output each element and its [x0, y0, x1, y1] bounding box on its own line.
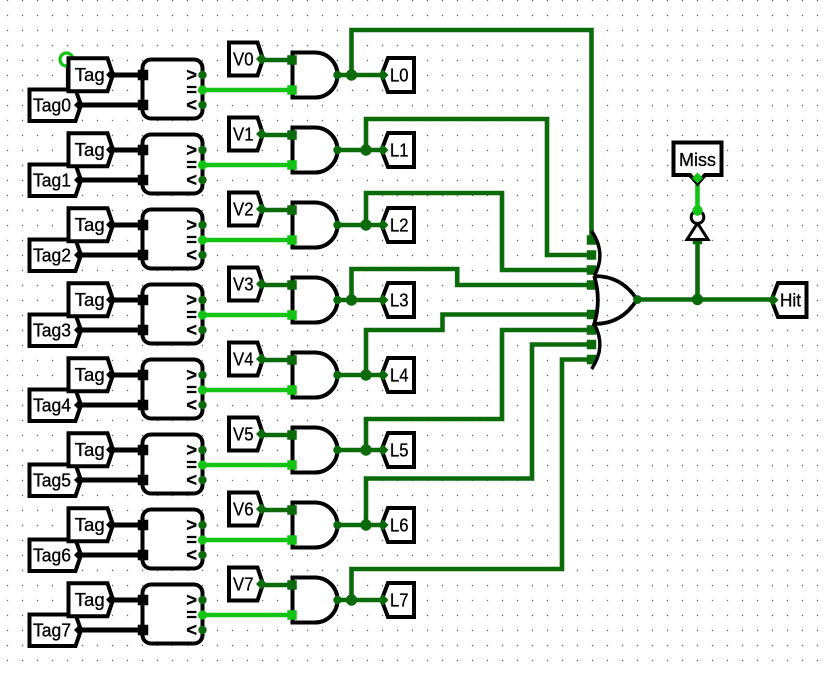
wire end square at AND gate A7 input 2 (high): [287, 610, 297, 620]
wire Tag to comparator CMP2 input A: [111, 223, 143, 228]
input label V5: [229, 418, 267, 451]
output label L5: [378, 433, 415, 467]
wire AND gate A6 output to label L6: [338, 523, 381, 528]
wire comparator CMP5 = output to AND gate A5 (high): [203, 463, 293, 468]
svg-text:V5: V5: [233, 424, 254, 444]
output label Miss: [674, 143, 722, 184]
AND gate A1: [293, 128, 342, 173]
input label Tag (row 5): [69, 433, 118, 466]
wire Tag0 to comparator CMP0 input B: [79, 103, 143, 108]
input label Tag2: [30, 240, 86, 272]
wire V6 to AND gate A6: [261, 508, 293, 513]
input label Tag (row 3): [69, 283, 118, 316]
wire AND gate A0 output to label L0: [338, 73, 381, 78]
output label L3: [378, 283, 415, 317]
wire AND gate A2 output branch to OR gate input 3: [366, 193, 592, 270]
output label L2: [378, 208, 415, 242]
AND gate A6: [293, 503, 342, 548]
svg-text:Tag: Tag: [75, 365, 105, 385]
input label Tag (row 6): [69, 508, 118, 541]
svg-text:L5: L5: [390, 440, 409, 460]
wire Tag to comparator CMP0 input A: [111, 73, 143, 78]
wire Tag to comparator CMP5 input A: [111, 448, 143, 453]
comparator CMP2: [143, 210, 208, 269]
wire end square at OR gate input 8: [587, 355, 597, 365]
svg-text:Tag: Tag: [75, 590, 105, 610]
AND gate A4: [293, 353, 342, 398]
input label Tag3: [30, 315, 86, 347]
wire Tag7 to comparator CMP7 input B: [79, 628, 143, 633]
wire V2 to AND gate A2: [261, 208, 293, 213]
wire comparator CMP7 = output to AND gate A7 (high): [203, 613, 293, 618]
svg-text:<: <: [186, 619, 197, 640]
input label V6: [229, 493, 267, 526]
AND gate A2: [293, 203, 342, 248]
wire Tag2 to comparator CMP2 input B: [79, 253, 143, 258]
wire end square at OR gate input 2: [587, 250, 597, 260]
wire AND gate A3 output branch to OR gate input 4: [352, 269, 592, 300]
svg-text:Hit: Hit: [780, 290, 801, 310]
wire end square at AND gate A2 input 1: [287, 205, 297, 215]
wire AND gate A3 output to label L3: [338, 298, 381, 303]
NOT gate U2 (inverter, pointing up): [687, 211, 708, 240]
wire AND gate A7 output to label L7: [338, 598, 381, 603]
svg-text:Tag2: Tag2: [33, 246, 71, 266]
wire Tag to comparator CMP6 input A: [111, 523, 143, 528]
wire V0 to AND gate A0: [261, 58, 293, 63]
wire Tag to comparator CMP4 input A: [111, 373, 143, 378]
input label V4: [229, 343, 267, 376]
wire end square at AND gate A1 input 2 (high): [287, 160, 297, 170]
output label Hit: [768, 283, 807, 317]
wire comparator CMP3 = output to AND gate A3 (high): [203, 313, 293, 318]
wire Tag to comparator CMP7 input A: [111, 598, 143, 603]
wire OR gate output to node: [638, 297, 698, 302]
input label V2: [229, 193, 267, 226]
wire end square at comparator CMP3 input B: [138, 325, 149, 336]
svg-text:Miss: Miss: [679, 150, 716, 170]
wire end square at comparator CMP5 input B: [138, 475, 149, 486]
wire V3 to AND gate A3: [261, 283, 293, 288]
svg-text:L6: L6: [390, 515, 409, 535]
input label Tag5: [30, 465, 86, 497]
svg-text:<: <: [186, 244, 197, 265]
output label L4: [378, 358, 415, 392]
AND gate A7: [293, 578, 342, 623]
input label Tag6: [30, 540, 86, 572]
svg-text:<: <: [186, 544, 197, 565]
wire end square at AND gate A3 input 1: [287, 280, 297, 290]
wire end square at comparator CMP3 input A: [138, 295, 149, 306]
wire end square at comparator CMP4 input A: [138, 370, 149, 381]
wire end square at comparator CMP0 input A: [138, 70, 149, 81]
junction node at AND gate A2 output: [360, 219, 371, 230]
wire AND gate A1 output to label L1: [338, 148, 381, 153]
svg-text:L1: L1: [390, 140, 409, 160]
svg-text:V7: V7: [233, 574, 254, 594]
wire comparator CMP6 = output to AND gate A6 (high): [203, 538, 293, 543]
wire Tag1 to comparator CMP1 input B: [79, 178, 143, 183]
wire AND gate A4 output branch to OR gate input 5: [366, 315, 592, 376]
svg-text:<: <: [186, 94, 197, 115]
comparator CMP0: [143, 60, 208, 119]
AND gate A3: [293, 278, 342, 323]
input label Tag1: [30, 165, 86, 197]
svg-text:<: <: [186, 169, 197, 190]
wire end square at AND gate A6 input 1: [287, 505, 297, 515]
wire end square at AND gate A4 input 1: [287, 355, 297, 365]
input label Tag (row 4): [69, 358, 118, 391]
wire end square at comparator CMP4 input B: [138, 400, 149, 411]
comparator CMP4: [143, 360, 208, 419]
output label L6: [378, 508, 415, 542]
wire end square at AND gate A0 input 2 (high): [287, 85, 297, 95]
wire Tag6 to comparator CMP6 input B: [79, 553, 143, 558]
wire AND gate A2 output to label L2: [338, 223, 381, 228]
svg-text:Tag: Tag: [75, 515, 105, 535]
svg-text:L4: L4: [390, 365, 409, 385]
input label Tag0: [30, 90, 86, 122]
AND gate A0: [293, 53, 342, 98]
wire V7 to AND gate A7: [261, 583, 293, 588]
svg-text:Tag: Tag: [75, 65, 105, 85]
wire comparator CMP2 = output to AND gate A2 (high): [203, 238, 293, 243]
svg-text:V3: V3: [233, 274, 254, 294]
junction node at AND gate A5 output: [360, 444, 371, 455]
svg-text:V4: V4: [233, 349, 254, 369]
svg-text:Tag3: Tag3: [33, 321, 71, 341]
wire end square at AND gate A2 input 2 (high): [287, 235, 297, 245]
svg-text:<: <: [186, 319, 197, 340]
svg-text:L3: L3: [390, 290, 409, 310]
junction node at AND gate A3 output: [346, 294, 357, 305]
svg-text:V1: V1: [233, 124, 254, 144]
wire end square at comparator CMP2 input B: [138, 250, 149, 261]
wire end square at OR gate input 6: [587, 325, 597, 335]
wire Tag4 to comparator CMP4 input B: [79, 403, 143, 408]
comparator CMP6: [143, 510, 208, 569]
wire end square at AND gate A5 input 2 (high): [287, 460, 297, 470]
wire end square at AND gate A4 input 2 (high): [287, 385, 297, 395]
wire comparator CMP4 = output to AND gate A4 (high): [203, 388, 293, 393]
svg-text:Tag: Tag: [75, 215, 105, 235]
wire end square at AND gate A6 input 2 (high): [287, 535, 297, 545]
input label Tag (row 0): [69, 58, 118, 91]
node at NOT gate output (high): [692, 205, 702, 215]
wire end square at OR gate input 7: [587, 340, 597, 350]
comparator CMP5: [143, 435, 208, 494]
wire end square at comparator CMP1 input A: [138, 145, 149, 156]
wire end square at OR gate input 4: [587, 280, 597, 290]
wire Tag to comparator CMP1 input A: [111, 148, 143, 153]
OR gate U1 (8-input): [592, 231, 642, 369]
wire AND gate A4 output to label L4: [338, 373, 381, 378]
wire end square at comparator CMP2 input A: [138, 220, 149, 231]
svg-text:Tag: Tag: [75, 140, 105, 160]
wire node to Hit label: [698, 297, 772, 302]
wire AND gate A0 output branch to OR gate input 1: [352, 30, 592, 240]
svg-text:Tag7: Tag7: [33, 621, 71, 641]
wire Tag to comparator CMP3 input A: [111, 298, 143, 303]
wire end square at comparator CMP6 input A: [138, 520, 149, 531]
svg-text:L0: L0: [390, 65, 409, 85]
wire AND gate A5 output branch to OR gate input 6: [366, 330, 592, 450]
output label L0: [378, 58, 415, 92]
input label Tag (row 2): [69, 208, 118, 241]
svg-text:Tag: Tag: [75, 290, 105, 310]
svg-text:L2: L2: [390, 215, 409, 235]
open wire end marker (circle): [60, 53, 73, 66]
svg-text:Tag0: Tag0: [33, 96, 71, 116]
wire end square at comparator CMP1 input B: [138, 175, 149, 186]
svg-text:<: <: [186, 469, 197, 490]
svg-text:Tag1: Tag1: [33, 171, 71, 191]
wire end square at AND gate A1 input 1: [287, 130, 297, 140]
svg-text:V2: V2: [233, 199, 254, 219]
wire end square at OR gate input 3: [587, 265, 597, 275]
wire comparator CMP0 = output to AND gate A0 (high): [203, 88, 293, 93]
wire end square at OR gate input 5: [587, 310, 597, 320]
wire AND gate A1 output branch to OR gate input 2: [366, 119, 592, 255]
wire V5 to AND gate A5: [261, 433, 293, 438]
junction node at AND gate A0 output: [346, 69, 357, 80]
junction node at AND gate A6 output: [360, 519, 371, 530]
AND gate A5: [293, 428, 342, 473]
wire end square at OR gate input 1: [587, 235, 597, 245]
wire end square at comparator CMP5 input A: [138, 445, 149, 456]
input label Tag7: [30, 615, 86, 647]
wire end square at NOT gate input: [693, 235, 703, 245]
wire AND gate A6 output branch to OR gate input 7: [366, 345, 592, 526]
wire end square at AND gate A0 input 1: [287, 55, 297, 65]
wire node to NOT gate input: [695, 240, 700, 300]
wire V1 to AND gate A1: [261, 133, 293, 138]
svg-text:Tag: Tag: [75, 440, 105, 460]
wire comparator CMP1 = output to AND gate A1 (high): [203, 163, 293, 168]
input label V1: [229, 118, 267, 151]
wire end square at comparator CMP7 input A: [138, 595, 149, 606]
svg-text:Tag6: Tag6: [33, 546, 71, 566]
junction node at AND gate A4 output: [360, 369, 371, 380]
svg-text:Tag5: Tag5: [33, 471, 71, 491]
svg-text:V0: V0: [233, 49, 254, 69]
input label V0: [229, 43, 267, 76]
wire NOT gate output to Miss label (high): [695, 178, 700, 211]
wire Tag5 to comparator CMP5 input B: [79, 478, 143, 483]
output label L7: [378, 583, 415, 617]
junction node at AND gate A1 output: [360, 144, 371, 155]
comparator CMP1: [143, 135, 208, 194]
svg-text:L7: L7: [390, 590, 409, 610]
junction node at OR output: [692, 294, 703, 305]
wire end square at AND gate A5 input 1: [287, 430, 297, 440]
input label V7: [229, 568, 267, 601]
svg-text:V6: V6: [233, 499, 254, 519]
wire AND gate A5 output to label L5: [338, 448, 381, 453]
wire end square at AND gate A3 input 2 (high): [287, 310, 297, 320]
wire Tag3 to comparator CMP3 input B: [79, 328, 143, 333]
junction node at AND gate A7 output: [346, 594, 357, 605]
wire stub at Tag input: [66, 62, 69, 89]
input label Tag4: [30, 390, 86, 422]
input label Tag (row 7): [69, 583, 118, 616]
input label V3: [229, 268, 267, 301]
input label Tag (row 1): [69, 133, 118, 166]
comparator CMP3: [143, 285, 208, 344]
output label L1: [378, 133, 415, 167]
wire end square at comparator CMP7 input B: [138, 625, 149, 636]
comparator CMP7: [143, 585, 208, 644]
svg-text:<: <: [186, 394, 197, 415]
svg-text:Tag4: Tag4: [33, 396, 71, 416]
wire end square at comparator CMP6 input B: [138, 550, 149, 561]
wire AND gate A7 output branch to OR gate input 8: [352, 360, 592, 601]
wire V4 to AND gate A4: [261, 358, 293, 363]
wire end square at comparator CMP0 input B: [138, 100, 149, 111]
wire end square at AND gate A7 input 1: [287, 580, 297, 590]
